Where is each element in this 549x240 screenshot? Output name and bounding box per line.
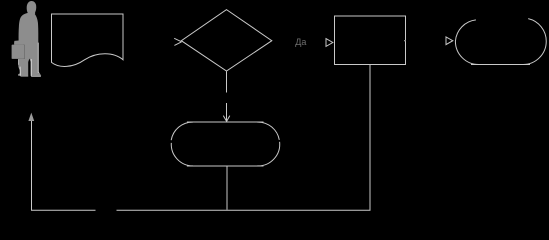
svg-text:Да: Да [295,37,306,47]
